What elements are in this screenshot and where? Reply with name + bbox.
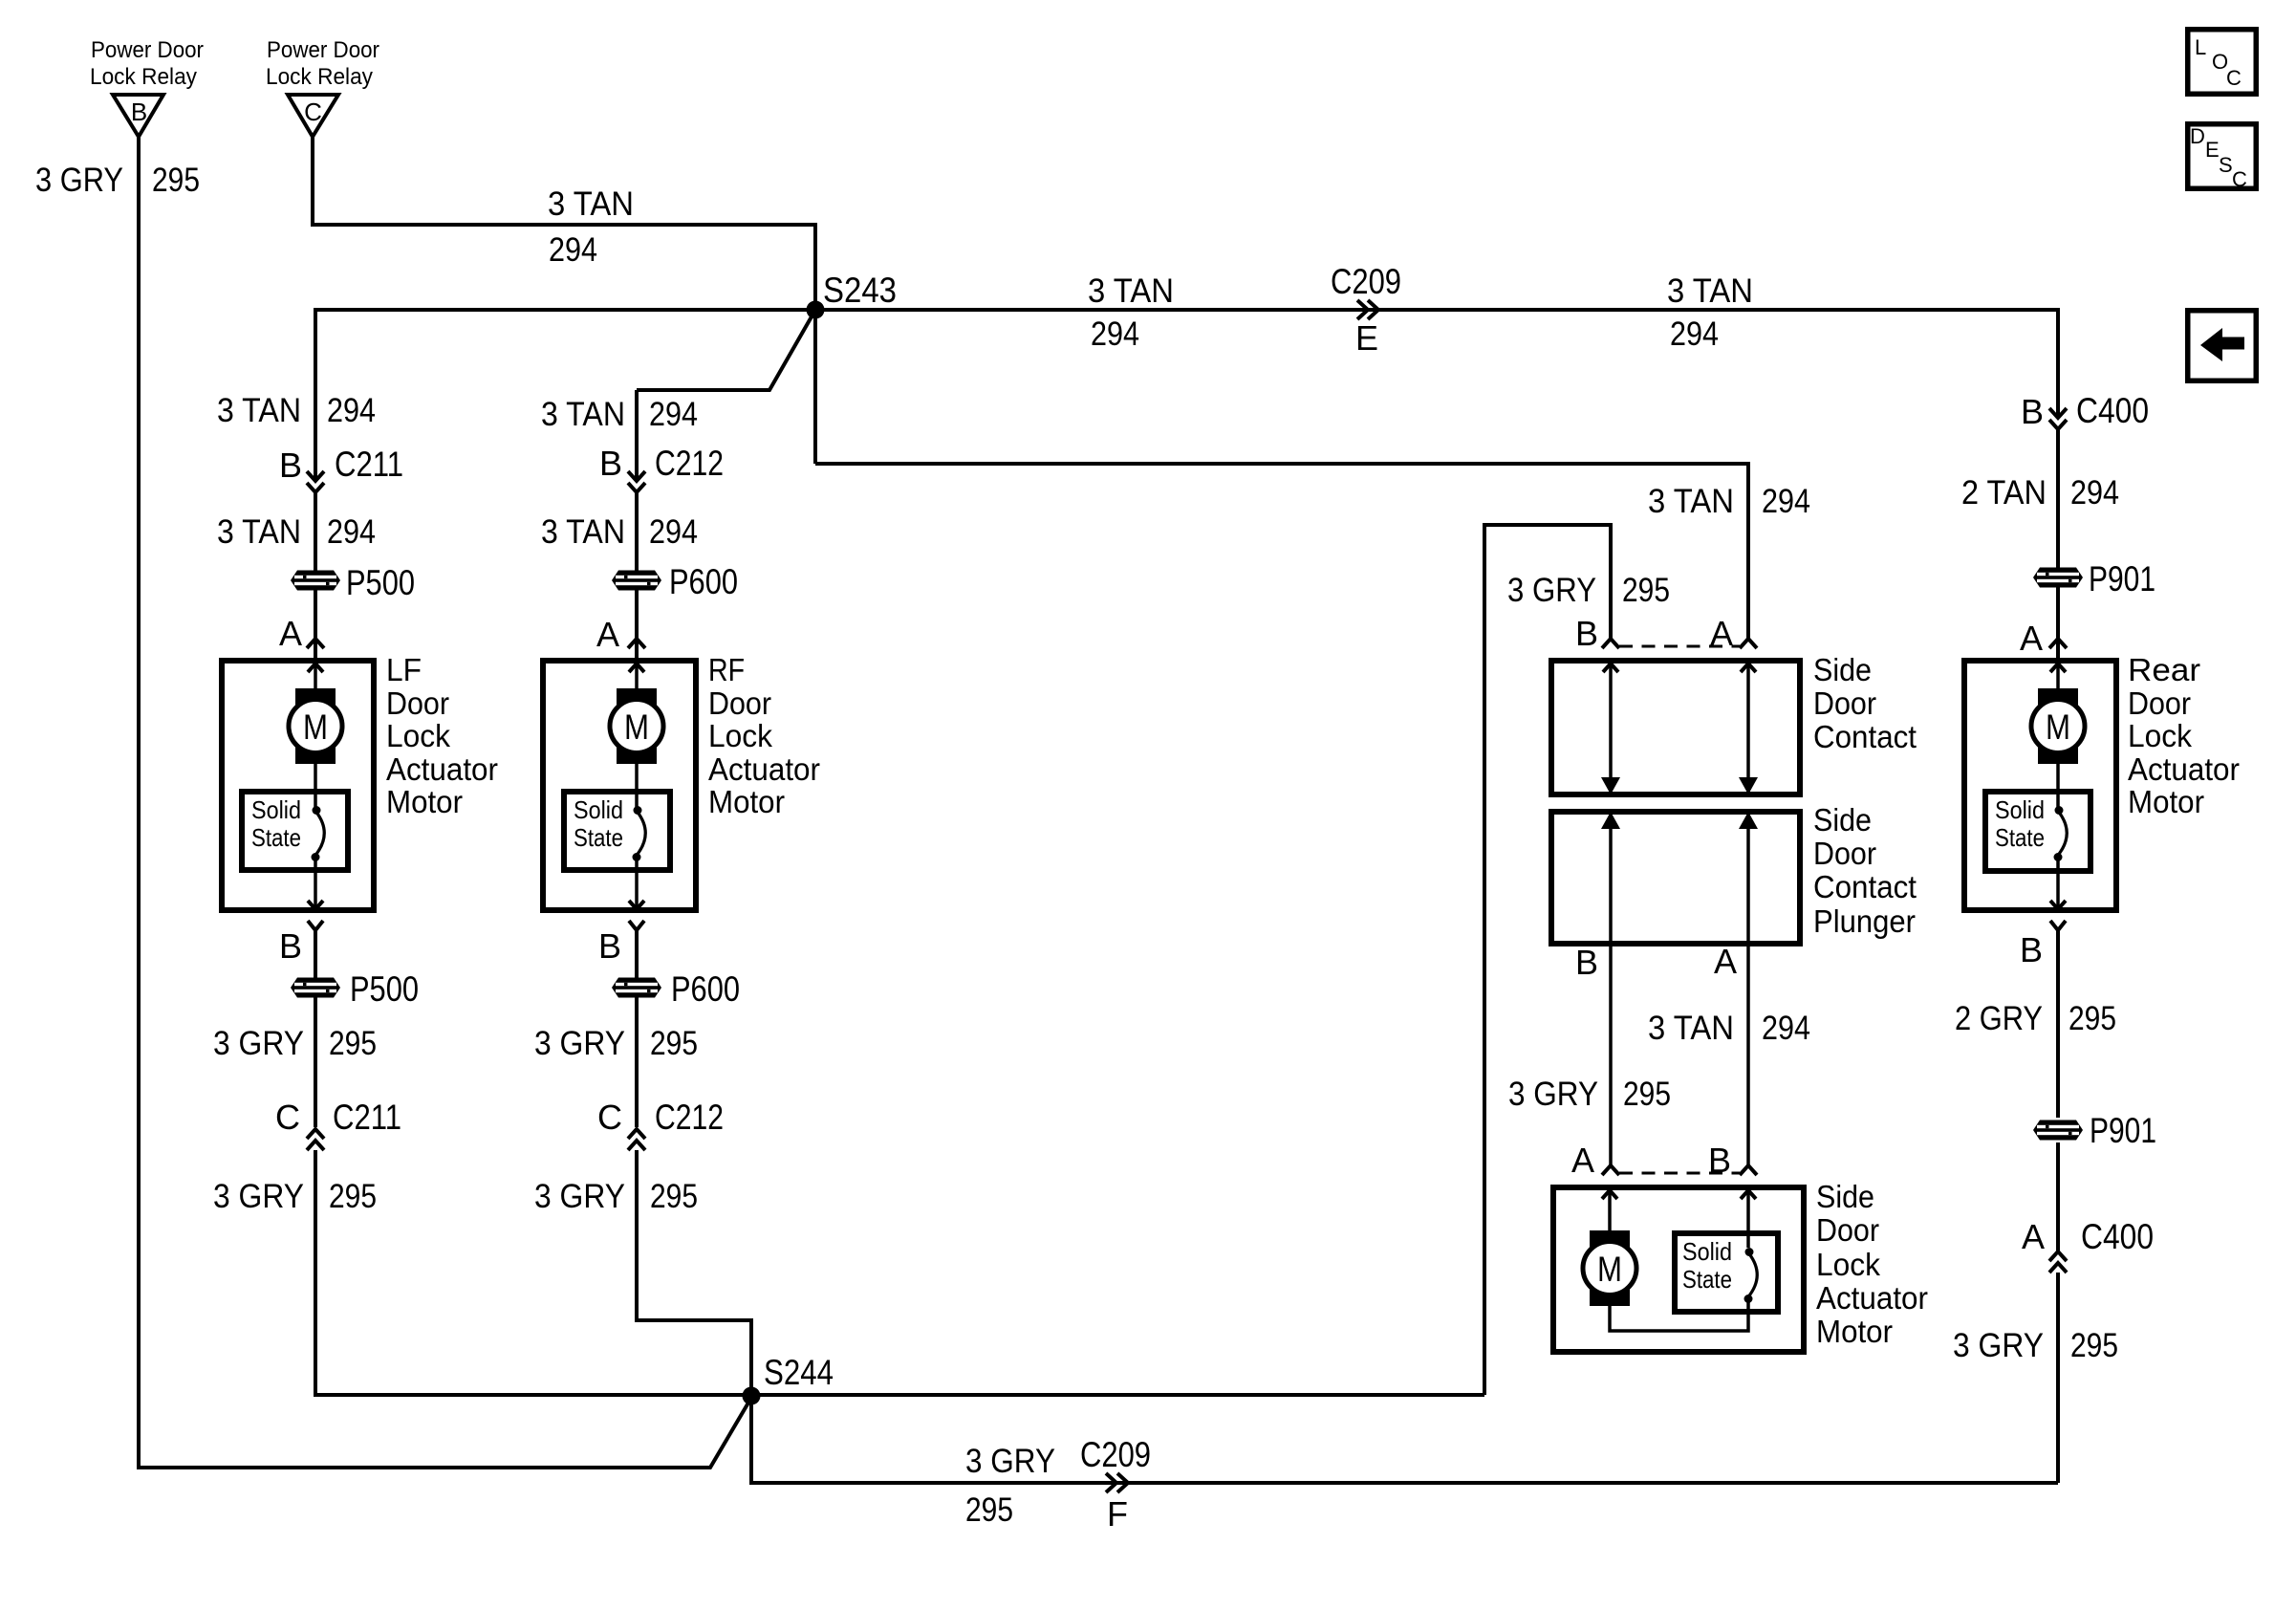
svg-text:294: 294 xyxy=(1670,315,1719,353)
grommet P600 (lower) xyxy=(612,978,661,998)
rear solid state switch xyxy=(1985,792,2090,871)
svg-text:State: State xyxy=(574,823,623,852)
relay terminal C triangle xyxy=(288,95,338,137)
svg-text:M: M xyxy=(624,707,649,747)
svg-text:A: A xyxy=(1714,942,1737,981)
RF internal wire in xyxy=(635,661,639,690)
svg-text:Lock: Lock xyxy=(2128,718,2192,753)
wire 295 from S244 down to bottom run xyxy=(751,1396,2058,1483)
svg-text:C209: C209 xyxy=(1080,1435,1151,1474)
svg-text:295: 295 xyxy=(2069,1000,2116,1037)
LF internal wire motor to contact xyxy=(314,764,317,808)
svg-text:294: 294 xyxy=(1091,315,1139,353)
svg-text:294: 294 xyxy=(327,513,376,551)
svg-text:Actuator: Actuator xyxy=(708,751,820,787)
dashed connector line above side door contact xyxy=(1619,645,1740,648)
wire 294 LF branch upper xyxy=(314,308,317,481)
svg-text:B: B xyxy=(2021,392,2044,431)
relay terminal B triangle xyxy=(113,95,163,137)
wire 294 LF to P500 xyxy=(314,492,317,658)
svg-text:294: 294 xyxy=(1762,1010,1810,1047)
wire 295 LF below actuator xyxy=(314,930,317,1127)
svg-text:M: M xyxy=(2046,707,2070,747)
rear internal wire motor to contact xyxy=(2056,764,2060,808)
RF door lock actuator motor box xyxy=(543,661,696,910)
svg-text:Solid: Solid xyxy=(574,795,623,824)
dashed connector line above side door lock actuator xyxy=(1619,1172,1740,1175)
side door contact internal wire A xyxy=(1746,661,1750,794)
side actuator motor M xyxy=(1590,1230,1630,1306)
rear internal wire in xyxy=(2056,661,2060,690)
svg-text:P600: P600 xyxy=(669,562,738,601)
svg-text:Door: Door xyxy=(386,685,449,721)
svg-text:B: B xyxy=(599,444,622,483)
svg-text:C: C xyxy=(2226,66,2242,90)
svg-text:3 GRY: 3 GRY xyxy=(213,1178,304,1215)
LF door lock actuator motor box xyxy=(222,661,374,910)
svg-text:Contact: Contact xyxy=(1813,869,1917,904)
grommet P500 (upper) xyxy=(291,571,340,591)
svg-text:294: 294 xyxy=(2070,474,2119,511)
svg-text:C: C xyxy=(304,98,322,126)
svg-text:3 TAN: 3 TAN xyxy=(1667,272,1753,310)
svg-text:295: 295 xyxy=(152,162,200,199)
svg-text:P500: P500 xyxy=(346,563,415,602)
plunger internal wire A with arrow xyxy=(1746,812,1750,1165)
grommet P901 (upper) xyxy=(2033,568,2083,588)
rear motor M xyxy=(2038,688,2078,764)
svg-text:C: C xyxy=(2232,167,2247,191)
svg-text:3 TAN: 3 TAN xyxy=(217,392,301,429)
svg-text:2 GRY: 2 GRY xyxy=(1955,1000,2043,1037)
svg-text:Side: Side xyxy=(1816,1179,1874,1214)
wire 295 rear to C400 xyxy=(2056,1142,2060,1251)
svg-text:E: E xyxy=(2205,138,2220,162)
wire 294 RF branch horizontal with diagonal from S243 xyxy=(637,312,814,390)
svg-text:Lock Relay: Lock Relay xyxy=(90,64,197,90)
svg-text:B: B xyxy=(279,926,302,966)
svg-text:A: A xyxy=(596,615,619,654)
svg-text:S243: S243 xyxy=(823,271,897,310)
svg-text:295: 295 xyxy=(650,1178,698,1215)
rear door lock actuator motor box xyxy=(1964,661,2116,910)
wire 295 RF below actuator xyxy=(635,930,639,1127)
svg-text:Power Door: Power Door xyxy=(91,37,204,63)
wire 294 RF to P600 xyxy=(635,492,639,658)
svg-text:Door: Door xyxy=(1813,836,1876,871)
svg-text:C: C xyxy=(597,1098,622,1137)
plunger internal wire B with arrow xyxy=(1609,812,1613,1165)
svg-text:P500: P500 xyxy=(350,969,419,1009)
RF motor M xyxy=(617,688,657,764)
svg-text:3 TAN: 3 TAN xyxy=(1648,1010,1734,1047)
side actuator internal link wire xyxy=(1610,1300,1748,1331)
svg-text:Door: Door xyxy=(2128,685,2191,721)
svg-text:Motor: Motor xyxy=(386,784,463,819)
svg-text:294: 294 xyxy=(1762,483,1810,520)
svg-text:P901: P901 xyxy=(2090,1111,2156,1150)
svg-text:Side: Side xyxy=(1813,802,1872,838)
svg-text:Lock: Lock xyxy=(386,718,450,753)
svg-text:S244: S244 xyxy=(764,1353,834,1392)
wire 295 RF down to S244 xyxy=(637,1150,751,1396)
svg-text:294: 294 xyxy=(549,231,597,269)
svg-text:E: E xyxy=(1355,318,1378,358)
svg-text:3 TAN: 3 TAN xyxy=(217,513,301,551)
svg-text:3 GRY: 3 GRY xyxy=(213,1025,304,1062)
svg-text:Solid: Solid xyxy=(251,795,301,824)
svg-text:B: B xyxy=(131,98,147,126)
svg-text:State: State xyxy=(1995,823,2045,852)
wire 294 right side down from main bus xyxy=(2056,308,2060,418)
svg-text:Actuator: Actuator xyxy=(2128,751,2240,787)
svg-text:B: B xyxy=(1575,614,1598,653)
wire 295 from relay B: left vertical and bottom run xyxy=(139,137,751,1468)
RF internal wire motor to contact xyxy=(635,764,639,808)
svg-text:C400: C400 xyxy=(2081,1217,2154,1256)
svg-text:3 GRY: 3 GRY xyxy=(1507,572,1596,609)
svg-text:Motor: Motor xyxy=(2128,784,2204,819)
LF internal wire in xyxy=(314,661,317,690)
RF solid state switch xyxy=(564,792,670,870)
splice S243 xyxy=(807,301,825,319)
wire 294 to P901 xyxy=(2056,429,2060,658)
svg-text:Actuator: Actuator xyxy=(386,751,498,787)
svg-text:C: C xyxy=(275,1098,300,1137)
svg-text:B: B xyxy=(598,926,621,966)
svg-text:Door: Door xyxy=(708,685,771,721)
svg-text:A: A xyxy=(279,614,302,653)
svg-text:Solid: Solid xyxy=(1995,795,2045,824)
svg-text:C400: C400 xyxy=(2076,391,2149,430)
svg-text:LF: LF xyxy=(386,652,422,687)
svg-text:295: 295 xyxy=(2070,1327,2118,1364)
svg-text:S: S xyxy=(2219,153,2233,177)
side door lock actuator motor box xyxy=(1553,1187,1804,1352)
wire 295 from S244 bus up to side door contact pin B xyxy=(1484,525,1611,1395)
svg-text:Power Door: Power Door xyxy=(267,37,379,63)
svg-text:Lock: Lock xyxy=(1816,1247,1880,1282)
RF internal wire out xyxy=(635,859,639,909)
svg-text:3 GRY: 3 GRY xyxy=(534,1025,625,1062)
svg-text:295: 295 xyxy=(965,1491,1013,1529)
svg-text:L: L xyxy=(2195,35,2206,59)
svg-text:Rear: Rear xyxy=(2128,652,2200,687)
svg-text:Plunger: Plunger xyxy=(1813,903,1916,939)
svg-text:3 TAN: 3 TAN xyxy=(541,396,625,433)
svg-text:M: M xyxy=(303,707,328,747)
svg-text:3 TAN: 3 TAN xyxy=(548,185,634,223)
svg-text:P901: P901 xyxy=(2089,559,2155,598)
side actuator internal wire B in xyxy=(1746,1187,1750,1248)
side door contact box xyxy=(1551,661,1800,794)
svg-text:Door: Door xyxy=(1816,1212,1879,1248)
svg-text:294: 294 xyxy=(327,392,376,429)
svg-text:2 TAN: 2 TAN xyxy=(1961,474,2047,511)
svg-text:Door: Door xyxy=(1813,685,1876,721)
svg-text:295: 295 xyxy=(329,1178,377,1215)
svg-text:3 TAN: 3 TAN xyxy=(1088,272,1174,310)
svg-text:Contact: Contact xyxy=(1813,719,1917,754)
svg-text:A: A xyxy=(1571,1141,1594,1180)
svg-text:3 GRY: 3 GRY xyxy=(35,162,123,199)
svg-text:295: 295 xyxy=(329,1025,377,1062)
side actuator solid state switch xyxy=(1675,1233,1778,1312)
svg-text:C209: C209 xyxy=(1331,262,1401,301)
svg-text:3 GRY: 3 GRY xyxy=(534,1178,625,1215)
svg-text:Actuator: Actuator xyxy=(1816,1280,1928,1316)
svg-text:C212: C212 xyxy=(655,444,724,483)
svg-text:295: 295 xyxy=(1623,1076,1671,1113)
svg-text:3 GRY: 3 GRY xyxy=(1953,1327,2044,1364)
wire 294 main bus from LF branch to right side xyxy=(315,308,2058,312)
rear internal wire out xyxy=(2056,859,2060,909)
svg-text:D: D xyxy=(2190,124,2205,148)
svg-text:3 GRY: 3 GRY xyxy=(1508,1076,1598,1113)
svg-text:B: B xyxy=(2020,930,2043,969)
svg-text:A: A xyxy=(2022,1217,2045,1256)
side door contact plunger box xyxy=(1551,812,1800,944)
svg-text:Motor: Motor xyxy=(1816,1314,1893,1349)
wire 295 LF to S244 bus xyxy=(314,1150,317,1397)
LF motor M xyxy=(295,688,336,764)
wire 294 from S243 to side door contact pin A xyxy=(815,464,1748,639)
wire 294 from relay C to splice S243 xyxy=(313,137,815,464)
svg-text:C212: C212 xyxy=(655,1098,724,1137)
svg-text:C211: C211 xyxy=(335,445,403,484)
svg-text:State: State xyxy=(251,823,301,852)
splice S244 xyxy=(743,1387,761,1405)
LF internal wire out xyxy=(314,859,317,909)
svg-text:C211: C211 xyxy=(333,1098,401,1137)
svg-text:Motor: Motor xyxy=(708,784,785,819)
side door contact internal wire B xyxy=(1609,661,1613,794)
wire 295 S244 bus xyxy=(315,1393,1484,1397)
grommet P901 (lower) xyxy=(2033,1120,2083,1141)
svg-text:P600: P600 xyxy=(671,969,740,1009)
svg-text:295: 295 xyxy=(1622,572,1670,609)
side actuator internal wire A in xyxy=(1608,1187,1612,1235)
svg-text:A: A xyxy=(2020,619,2043,658)
svg-text:B: B xyxy=(1575,943,1598,982)
LOC reference box xyxy=(2188,30,2257,95)
svg-text:Solid: Solid xyxy=(1682,1237,1732,1266)
svg-text:294: 294 xyxy=(649,396,698,433)
svg-text:Side: Side xyxy=(1813,652,1872,687)
svg-text:3 TAN: 3 TAN xyxy=(541,513,625,551)
wire 295 rear down to bottom run xyxy=(2056,1273,2060,1483)
grommet P500 (lower) xyxy=(291,978,340,998)
svg-text:295: 295 xyxy=(650,1025,698,1062)
svg-text:B: B xyxy=(279,446,302,485)
svg-text:State: State xyxy=(1682,1265,1732,1294)
LF solid state switch xyxy=(242,792,348,870)
svg-text:Lock Relay: Lock Relay xyxy=(266,64,373,90)
svg-text:M: M xyxy=(1597,1250,1622,1289)
back-arrow navigation box xyxy=(2188,311,2257,381)
wire 295 rear below actuator xyxy=(2056,930,2060,1118)
svg-text:Lock: Lock xyxy=(708,718,772,753)
svg-text:RF: RF xyxy=(708,652,745,687)
svg-text:3 GRY: 3 GRY xyxy=(965,1443,1055,1480)
svg-text:294: 294 xyxy=(649,513,698,551)
grommet P600 (upper) xyxy=(612,571,661,591)
DESC reference box xyxy=(2188,124,2257,189)
svg-text:3 TAN: 3 TAN xyxy=(1648,483,1734,520)
svg-text:F: F xyxy=(1107,1494,1128,1534)
